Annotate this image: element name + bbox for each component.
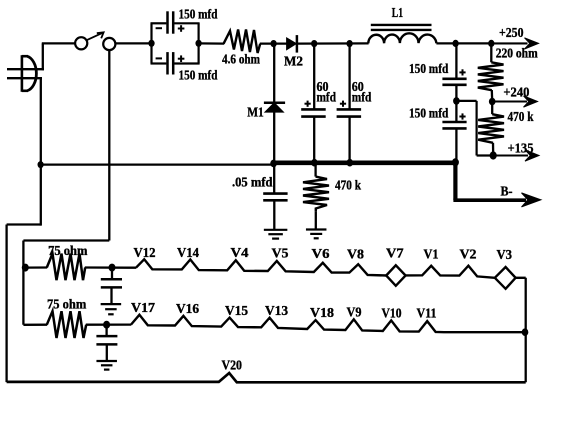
svg-text:mfd: mfd (317, 90, 337, 105)
svg-text:V3: V3 (497, 247, 513, 262)
svg-text:L1: L1 (392, 5, 403, 20)
svg-text:150 mfd: 150 mfd (409, 106, 449, 121)
svg-text:V2: V2 (460, 247, 477, 262)
svg-text:75 ohm: 75 ohm (47, 297, 86, 312)
svg-text:V12: V12 (134, 245, 156, 260)
svg-text:150 mfd: 150 mfd (179, 6, 218, 21)
svg-text:B-: B- (501, 184, 513, 199)
svg-text:V15: V15 (225, 303, 248, 318)
svg-text:+250: +250 (499, 25, 524, 40)
svg-text:V11: V11 (417, 305, 437, 320)
svg-text:V20: V20 (222, 358, 243, 373)
svg-text:mfd: mfd (352, 90, 372, 105)
svg-text:470 k: 470 k (335, 178, 361, 193)
svg-text:V1: V1 (424, 246, 439, 261)
svg-text:V10: V10 (382, 305, 402, 320)
svg-text:V16: V16 (176, 301, 199, 316)
svg-text:V9: V9 (347, 305, 362, 320)
svg-text:470 k: 470 k (508, 109, 534, 124)
svg-text:150 mfd: 150 mfd (179, 67, 218, 82)
svg-text:+135: +135 (508, 140, 534, 155)
svg-text:V14: V14 (177, 245, 199, 260)
svg-text:V7: V7 (386, 245, 404, 260)
svg-text:75 ohm: 75 ohm (48, 243, 87, 258)
svg-text:.05 mfd: .05 mfd (232, 175, 273, 190)
svg-text:V5: V5 (272, 246, 289, 261)
svg-text:V18: V18 (310, 305, 334, 320)
svg-text:V8: V8 (347, 247, 364, 262)
svg-text:220 ohm: 220 ohm (496, 46, 538, 61)
svg-text:V13: V13 (265, 303, 288, 318)
svg-text:V6: V6 (312, 246, 330, 261)
svg-text:+240: +240 (503, 84, 529, 99)
svg-text:V4: V4 (231, 245, 249, 260)
svg-text:M2: M2 (284, 54, 303, 69)
svg-text:4.6 ohm: 4.6 ohm (222, 51, 260, 66)
svg-text:150 mfd: 150 mfd (409, 61, 449, 76)
svg-text:V17: V17 (131, 300, 155, 315)
svg-text:M1: M1 (247, 105, 264, 120)
